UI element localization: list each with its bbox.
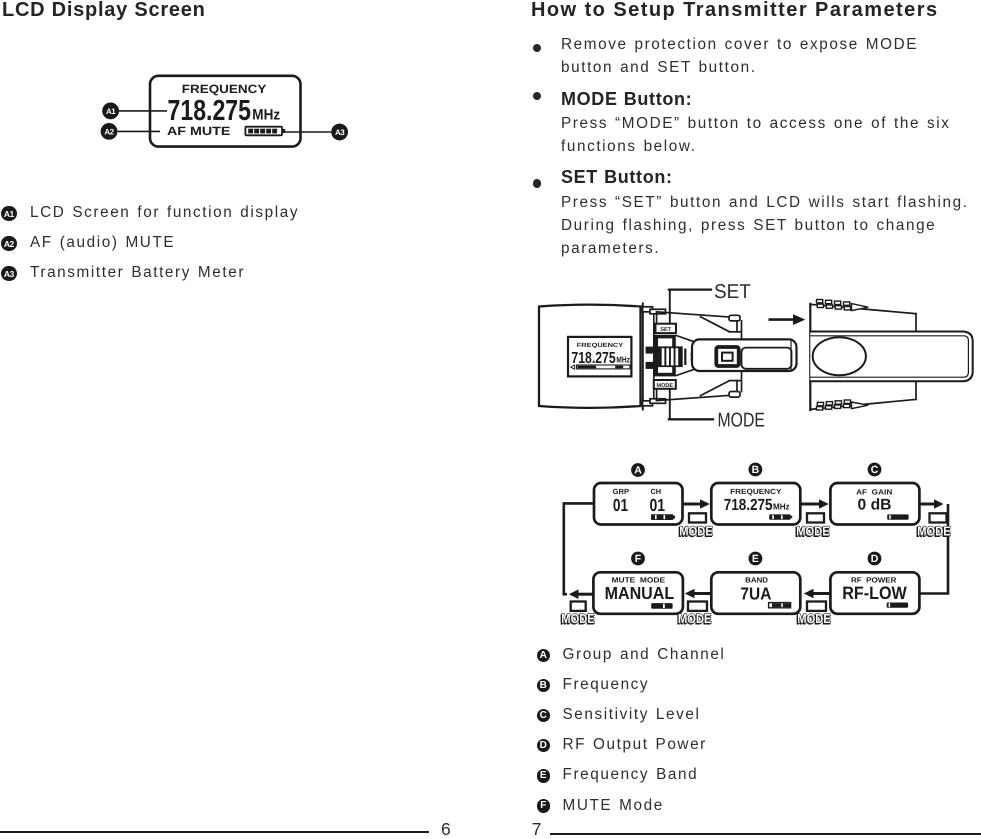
SET button box: [656, 324, 677, 333]
MODE button 3 top: [916, 513, 951, 539]
callout A1: [119, 110, 167, 112]
arrow to cover: [770, 318, 794, 321]
body LCD battery bar: [571, 365, 575, 369]
MODE button 2 top: [795, 513, 830, 539]
arrow F to loop: [569, 589, 594, 599]
svg-text:AF GAIN: AF GAIN: [856, 487, 892, 496]
CH vertical bar and label: [684, 349, 686, 366]
svg-text:FREQUENCY: FREQUENCY: [577, 342, 623, 349]
top collar: [643, 307, 653, 312]
arrow C to loop: [920, 499, 944, 509]
callout A2: [117, 130, 160, 132]
bullets: [533, 44, 541, 52]
svg-text:0 dB: 0 dB: [858, 497, 892, 514]
flow diagram: [555, 452, 981, 632]
MODE button 1 bottom: [560, 602, 595, 627]
right bottom list: [537, 649, 551, 663]
svg-text:B: B: [752, 464, 760, 476]
cover top clips: [817, 300, 869, 311]
svg-text:MHz: MHz: [252, 107, 280, 124]
svg-text:AF MUTE: AF MUTE: [167, 124, 230, 138]
arrow B to C: [801, 499, 829, 509]
svg-text:MHz: MHz: [616, 355, 630, 365]
svg-text:A3: A3: [335, 128, 345, 137]
MODE button 1 top: [678, 513, 713, 539]
footer: [0, 831, 429, 833]
svg-text:A1: A1: [106, 107, 116, 116]
arrow A to B: [684, 499, 710, 509]
lower shroud wing: [657, 373, 742, 401]
svg-text:01: 01: [649, 495, 665, 515]
svg-text:718.275: 718.275: [168, 95, 252, 127]
svg-text:MODE: MODE: [657, 383, 674, 389]
svg-text:D: D: [871, 553, 879, 565]
svg-text:718.275: 718.275: [571, 350, 615, 367]
loop line left (F back to A): [564, 503, 594, 594]
cone edges to plug: [676, 336, 693, 342]
box E BAND: [711, 572, 800, 614]
left list: [1, 206, 17, 222]
transmitter figure: [530, 280, 981, 440]
svg-text:MHz: MHz: [773, 502, 790, 512]
MODE button box: [654, 380, 676, 389]
transmitter body: [539, 305, 641, 408]
body LCD window: [568, 337, 631, 377]
svg-text:01: 01: [613, 495, 628, 515]
knurl frame: [656, 337, 674, 375]
svg-text:718.275: 718.275: [724, 496, 773, 514]
svg-text:7UA: 7UA: [740, 583, 771, 603]
svg-text:SET: SET: [714, 281, 751, 303]
circle label D: [868, 552, 882, 566]
bottom collar: [643, 401, 653, 406]
LCD display figure: [95, 70, 355, 152]
cover bar: [810, 332, 972, 382]
cover shell: [810, 304, 916, 410]
svg-text:E: E: [752, 553, 759, 565]
upper shroud wing: [657, 312, 742, 340]
knurl ribs: [657, 346, 683, 367]
arrow E to F: [685, 589, 712, 599]
MODE button 3 bottom: [796, 602, 831, 627]
svg-text:A2: A2: [104, 127, 114, 136]
svg-text:A: A: [634, 465, 642, 477]
neck line: [653, 312, 655, 400]
svg-text:C: C: [871, 464, 879, 476]
left tabs: [646, 347, 655, 354]
callout A3: [285, 131, 332, 133]
svg-text:MODE: MODE: [718, 410, 765, 432]
svg-text:RF-LOW: RF-LOW: [842, 583, 907, 603]
MODE button 2 bottom: [677, 602, 712, 627]
svg-text:MANUAL: MANUAL: [605, 583, 675, 603]
cover bottom clips: [817, 400, 869, 410]
circle label A: [631, 463, 645, 477]
box A GRP/CH: [594, 483, 683, 525]
battery meter: [245, 127, 285, 136]
cover ellipse: [813, 337, 866, 375]
svg-text:F: F: [635, 553, 642, 565]
plug barrel: [692, 339, 797, 371]
svg-text:SET: SET: [660, 327, 671, 333]
arrow D to E: [804, 589, 831, 599]
plug window: [742, 348, 792, 369]
plug latch button: [716, 347, 738, 366]
LCD outline box: [150, 76, 301, 147]
box D RF POWER: [830, 572, 919, 614]
MODE callout: [669, 389, 671, 420]
SET callout: [669, 290, 671, 324]
svg-text:FREQUENCY: FREQUENCY: [730, 487, 781, 496]
circle label C: [868, 463, 882, 477]
circle label E: [749, 552, 763, 566]
loop line right (C down to D): [920, 504, 948, 594]
box C AF GAIN: [830, 483, 919, 525]
box B FREQUENCY: [711, 483, 800, 525]
circle label F: [631, 552, 645, 566]
box F MUTE MODE: [593, 572, 683, 614]
circle label B: [749, 463, 763, 477]
